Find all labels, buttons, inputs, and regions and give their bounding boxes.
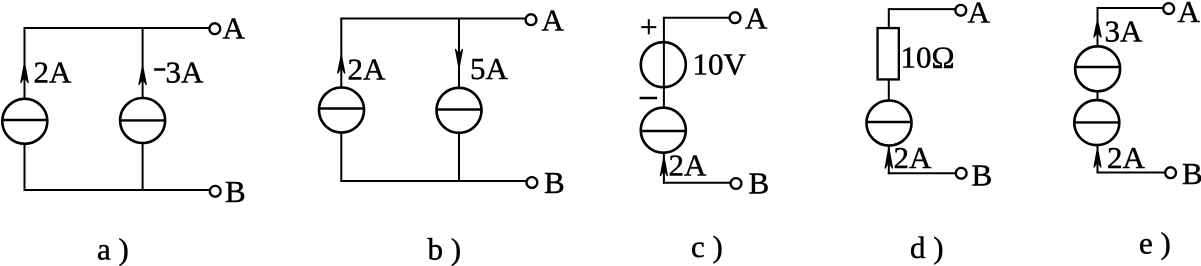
wire: vertical through voltage source c [663, 17, 665, 108]
wire: bottom horizontal d [888, 172, 956, 174]
wire: top horizontal e [1098, 7, 1164, 9]
arrow for 2A source b (up) [338, 55, 345, 74]
svg-text:A: A [1178, 0, 1201, 29]
svg-text:e ): e ) [1139, 226, 1171, 261]
resistor R (10 ohm) [878, 28, 899, 79]
wire: left vertical bottom b [340, 132, 342, 182]
current source Id (2A) circle [867, 101, 912, 146]
current source I1 bar [2, 119, 48, 121]
terminal A (circuit b) [526, 14, 537, 25]
wire: right vertical bottom a [142, 143, 144, 191]
wire: top horizontal d [889, 8, 955, 10]
plus sign of voltage source [641, 19, 656, 34]
current source I2b (5A) circle [437, 88, 482, 133]
svg-text:3A: 3A [1105, 13, 1144, 48]
wire: bottom horizontal c [663, 182, 730, 184]
arrow for 2A source (up) [21, 63, 29, 84]
wire: bottom horizontal b [340, 180, 525, 182]
wire: top horizontal a [24, 27, 209, 29]
wire: right vertical top b [458, 18, 460, 89]
terminal B (circuit e) [1165, 167, 1176, 178]
svg-text:3A: 3A [166, 55, 205, 90]
arrow for 2A source c (up) [660, 157, 667, 177]
wire: vertical below source d [888, 145, 890, 174]
svg-text:b ): b ) [428, 232, 462, 266]
terminal A (circuit c) [730, 12, 741, 23]
current source Ic bar [641, 130, 687, 132]
current source Ie2 bar [1074, 121, 1120, 123]
current source I2 bar [120, 119, 166, 121]
svg-text:2A: 2A [1107, 140, 1146, 175]
svg-text:2A: 2A [894, 140, 933, 175]
voltage source U (10V) circle [641, 42, 686, 87]
terminal B (circuit a) [210, 186, 221, 197]
current source I2b bar [436, 108, 482, 110]
svg-text:5A: 5A [470, 51, 509, 86]
current source I2 (-3A) circle [120, 98, 165, 143]
wire: vertical between resistor and source d [888, 81, 890, 101]
current source Ic (2A) circle [641, 108, 686, 153]
terminal B (circuit c) [731, 178, 742, 189]
current source I1b bar [319, 107, 365, 109]
svg-text:c ): c ) [691, 229, 723, 264]
wire: vertical above resistor d [888, 8, 890, 27]
wire: top horizontal c [664, 17, 729, 19]
svg-text:A: A [223, 10, 246, 45]
wire: left vertical bottom a [24, 143, 26, 191]
svg-text:B: B [972, 158, 993, 193]
svg-text:A: A [968, 0, 991, 30]
arrow for 2A source e (up) [1094, 148, 1101, 168]
svg-text:B: B [1182, 156, 1201, 191]
svg-text:B: B [749, 166, 770, 201]
minus sign of -3A label [154, 68, 165, 71]
terminal A (circuit e) [1163, 3, 1174, 14]
wire: top horizontal b [340, 18, 525, 20]
svg-text:10Ω: 10Ω [901, 39, 955, 74]
wire: right vertical bottom b [458, 133, 460, 183]
arrow for -3A source (up) [139, 66, 147, 86]
svg-text:d ): d ) [910, 230, 944, 265]
svg-text:a ): a ) [97, 232, 129, 266]
svg-text:A: A [542, 2, 565, 37]
wire: vertical above top source e [1097, 7, 1099, 46]
wire: left vertical top a [24, 27, 26, 99]
terminal A (circuit d) [955, 5, 966, 16]
wire: left vertical top b [340, 18, 342, 88]
svg-text:B: B [225, 174, 246, 209]
wire: bottom horizontal a [24, 189, 209, 191]
wire: bottom horizontal e [1097, 172, 1165, 174]
svg-text:2A: 2A [348, 51, 387, 86]
svg-text:A: A [745, 1, 768, 36]
current source Ie1 bar [1075, 66, 1121, 68]
current source I1b (2A) circle [319, 88, 364, 133]
svg-text:10V: 10V [693, 46, 747, 81]
terminal B (circuit d) [956, 168, 967, 179]
current source Ie2 (2A) circle [1074, 100, 1119, 145]
wire: vertical between sources e [1097, 91, 1099, 101]
svg-text:2A: 2A [34, 55, 73, 90]
minus sign of voltage source [640, 97, 658, 100]
arrow for 3A source e (up) [1094, 20, 1102, 38]
arrow for 2A source d (up) [885, 148, 893, 169]
wire: right vertical top a [142, 27, 144, 98]
arrow for 5A source b (down) [455, 49, 462, 69]
svg-text:B: B [544, 165, 565, 200]
terminal B (circuit b) [527, 177, 538, 188]
current source Ie1 (3A) circle [1075, 46, 1120, 91]
wire: vertical below current source c [663, 152, 665, 183]
wire: vertical below bottom source e [1097, 145, 1099, 174]
svg-text:2A: 2A [669, 148, 708, 183]
current source I1 (2A) circle [2, 99, 47, 144]
terminal A (circuit a) [209, 23, 220, 34]
current source Id bar [866, 121, 912, 123]
